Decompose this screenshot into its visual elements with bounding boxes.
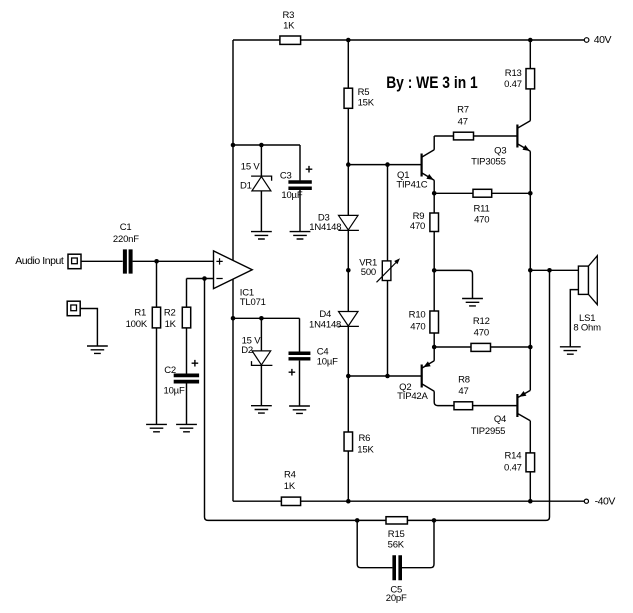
svg-text:10µF: 10µF (164, 385, 185, 396)
svg-text:D1: D1 (240, 180, 252, 191)
resistor R15 (386, 517, 407, 551)
wire C3 branch lower (299, 190, 301, 232)
wire Q4 collector to R14 to -40V (529, 421, 531, 501)
wire VR1 column x=387.5 (387, 165, 389, 376)
junction +40V/R13 (528, 38, 533, 43)
junction Q3 emitter (528, 191, 533, 196)
svg-text:470: 470 (410, 321, 425, 332)
junction D3/Q1 base (346, 162, 351, 167)
wire op-amp V- column to D2/C4 rail (232, 279, 234, 501)
svg-text:15K: 15K (357, 445, 374, 456)
wire -15V rail y=318.3 (233, 317, 300, 319)
svg-text:By : WE 3 in 1: By : WE 3 in 1 (386, 73, 478, 92)
junction Q1 emitter (432, 191, 437, 196)
svg-text:R10: R10 (409, 310, 426, 321)
svg-text:TIP2955: TIP2955 (471, 426, 506, 437)
svg-text:47: 47 (458, 386, 468, 397)
wire C5 right branch (402, 520, 434, 567)
ground (R1) (146, 424, 167, 431)
svg-text:15K: 15K (358, 97, 375, 108)
svg-text:1K: 1K (283, 20, 295, 31)
svg-text:20pF: 20pF (386, 593, 407, 604)
wire feedback column x=204.5 down to y=520 rail (205, 279, 387, 521)
wire R12 row y=347 (434, 346, 530, 348)
resistor R10 (409, 310, 439, 334)
svg-text:1K: 1K (165, 319, 177, 330)
ground (bias midpoint) (462, 299, 483, 306)
transistor Q4 TIP2955 (PNP) (471, 390, 531, 437)
resistor R14 (504, 451, 535, 474)
svg-text:Q4: Q4 (494, 414, 506, 425)
svg-text:500: 500 (361, 267, 376, 278)
svg-text:TIP41C: TIP41C (396, 179, 427, 190)
svg-text:C2: C2 (164, 365, 176, 376)
wire R11 row y=193.3 (434, 192, 530, 194)
capacitor C3 10uF (280, 166, 312, 201)
svg-text:470: 470 (410, 221, 425, 232)
resistor R4 (281, 469, 300, 505)
svg-text:40V: 40V (594, 34, 612, 46)
svg-text:470: 470 (474, 327, 489, 338)
svg-text:1K: 1K (284, 481, 296, 492)
capacitor C4 10uF (289, 347, 339, 376)
wire R2 column upper (186, 279, 188, 374)
wire Q1 emitter drop (433, 180, 435, 193)
junction VR1 bottom (385, 374, 390, 379)
wire Q2 emitter riser (433, 347, 435, 361)
junction VR1 top (385, 162, 390, 167)
junction Q4 emitter (528, 345, 533, 350)
resistor R6 (344, 432, 374, 456)
capacitor C5 20pF (386, 555, 407, 604)
wire -40V bottom rail (233, 500, 584, 502)
resistor R2 (164, 307, 191, 330)
wire C4 branch upper (299, 318, 301, 351)
junction output/feedback (547, 268, 552, 273)
ground (D1) (251, 232, 272, 239)
junction -15V rail left (231, 316, 236, 321)
svg-text:Q3: Q3 (494, 145, 506, 156)
resistor R13 (504, 68, 534, 90)
resistor R12 (471, 316, 491, 351)
wire R8 to Q4 base (473, 405, 518, 407)
wire R9/R10 column x=434 (433, 193, 435, 347)
resistor R1 (126, 307, 161, 330)
op-amp IC1 TL071 (214, 251, 266, 308)
wire D1 branch (260, 145, 262, 232)
terminal -40V (584, 496, 615, 508)
wire R5/D3/D4/R6 bias column x=348 (347, 40, 349, 501)
svg-text:Audio Input: Audio Input (15, 255, 64, 267)
terminal +40V (584, 34, 611, 46)
wire +40V top rail (233, 39, 584, 41)
wire input terminal 2 to ground (80, 309, 97, 347)
wire output to speaker (530, 269, 578, 271)
wire C5 left branch (357, 520, 392, 567)
wire Q1 collector riser (433, 136, 435, 150)
wire C1 to op-amp non-inverting input (133, 260, 214, 262)
svg-text:1N4148: 1N4148 (309, 320, 341, 331)
svg-text:56K: 56K (388, 540, 405, 551)
wire C2 to ground (186, 383, 188, 424)
resistor R11 (473, 189, 492, 225)
potentiometer VR1 500 (359, 258, 400, 283)
svg-text:TIP3055: TIP3055 (471, 156, 506, 167)
junction R6/-40V (346, 499, 351, 504)
svg-text:R2: R2 (164, 308, 176, 319)
svg-text:R11: R11 (473, 203, 489, 214)
zener diode D2 15V (241, 335, 272, 365)
zener diode D1 15V (240, 162, 272, 192)
svg-text:R14: R14 (504, 451, 521, 462)
input terminal J1 (Audio Input) (15, 254, 81, 269)
ground (C4) (289, 406, 310, 413)
wire D2 branch (260, 318, 262, 405)
junction inverting input (202, 276, 207, 281)
svg-text:47: 47 (458, 116, 468, 127)
svg-text:D2: D2 (241, 345, 253, 356)
svg-text:R13: R13 (505, 68, 522, 79)
wire bias midpoint to ground (434, 270, 472, 298)
ground (C3) (290, 232, 311, 239)
wire Q2 base wire y=376 (348, 375, 421, 377)
junction 15V rail left (231, 143, 236, 148)
ground (C2) (176, 424, 197, 431)
svg-text:R15: R15 (388, 529, 405, 540)
resistor R3 (280, 10, 301, 44)
junction Q2 emitter (432, 345, 437, 350)
svg-text:R8: R8 (458, 375, 470, 386)
junction C5 right (432, 518, 437, 523)
svg-text:R12: R12 (473, 316, 490, 327)
wire C4 branch lower (299, 361, 301, 406)
wire output column x=530 (529, 151, 531, 390)
wire C3 branch upper (299, 145, 301, 180)
junction D4/Q2 base (346, 374, 351, 379)
junction op-amp output (346, 268, 351, 273)
resistor R8 (454, 375, 473, 410)
wire R7 base drive y=136 (434, 135, 517, 137)
transistor Q3 TIP3055 (NPN) (471, 121, 530, 168)
wire R13 column top (529, 40, 531, 121)
input terminal J2 (return) (67, 301, 80, 316)
svg-text:1N4148: 1N4148 (309, 222, 341, 233)
svg-text:100K: 100K (126, 319, 148, 330)
junction C5 left (355, 518, 360, 523)
junction R14/-40V (528, 499, 533, 504)
capacitor C1 220nF (113, 222, 139, 274)
junction output node (528, 268, 533, 273)
svg-text:R4: R4 (284, 469, 296, 480)
wire left supply column x=233 (R3 to D1/C3 node to op-amp V+) (232, 40, 234, 260)
wire 15V rail y=145 (233, 144, 300, 146)
junction +40V/R5 (346, 38, 351, 43)
svg-text:C3: C3 (280, 170, 292, 181)
capacitor C2 10uF (164, 360, 200, 397)
junction input/R1 (154, 259, 159, 264)
junction D2 top (259, 316, 264, 321)
svg-text:0.47: 0.47 (504, 462, 522, 473)
svg-text:R7: R7 (457, 104, 469, 115)
wire audio input to C1 (82, 260, 123, 262)
svg-text:8 Ohm: 8 Ohm (573, 323, 601, 334)
svg-text:10µF: 10µF (317, 357, 338, 368)
diode D3 1N4148 (309, 213, 359, 234)
svg-text:220nF: 220nF (113, 234, 139, 245)
svg-text:470: 470 (474, 215, 489, 226)
svg-text:R1: R1 (134, 308, 146, 319)
svg-text:10µF: 10µF (281, 190, 302, 201)
svg-text:C1: C1 (120, 222, 132, 233)
diode D4 1N4148 (309, 309, 359, 331)
svg-text:0.47: 0.47 (504, 79, 522, 90)
wire inverting input stub (187, 278, 214, 280)
resistor R7 (454, 104, 474, 139)
ground (input return) (87, 346, 108, 353)
svg-text:-40V: -40V (595, 496, 616, 508)
wire Q1 base wire y=164.6 (348, 164, 421, 166)
ground (speaker) (560, 347, 581, 354)
svg-text:TL071: TL071 (240, 297, 266, 308)
svg-text:TIP42A: TIP42A (397, 391, 428, 402)
svg-text:15 V: 15 V (241, 162, 261, 173)
ground (D2) (251, 406, 272, 413)
svg-text:D4: D4 (319, 309, 331, 320)
transistor Q1 TIP41C (NPN) (396, 150, 434, 191)
wire Q2 collector to R8 (434, 391, 454, 405)
transistor Q2 TIP42A (PNP) (397, 361, 434, 402)
speaker LS1 8 Ohm (573, 256, 601, 334)
junction bias midpoint (432, 268, 437, 273)
resistor R9 (410, 211, 439, 232)
wire R1 column to ground (156, 261, 158, 424)
wire speaker return to ground (570, 290, 578, 347)
svg-text:R6: R6 (359, 433, 371, 444)
junction D1 top (259, 143, 264, 148)
wire feedback rail right to output node (407, 270, 549, 520)
resistor R5 (344, 87, 375, 108)
